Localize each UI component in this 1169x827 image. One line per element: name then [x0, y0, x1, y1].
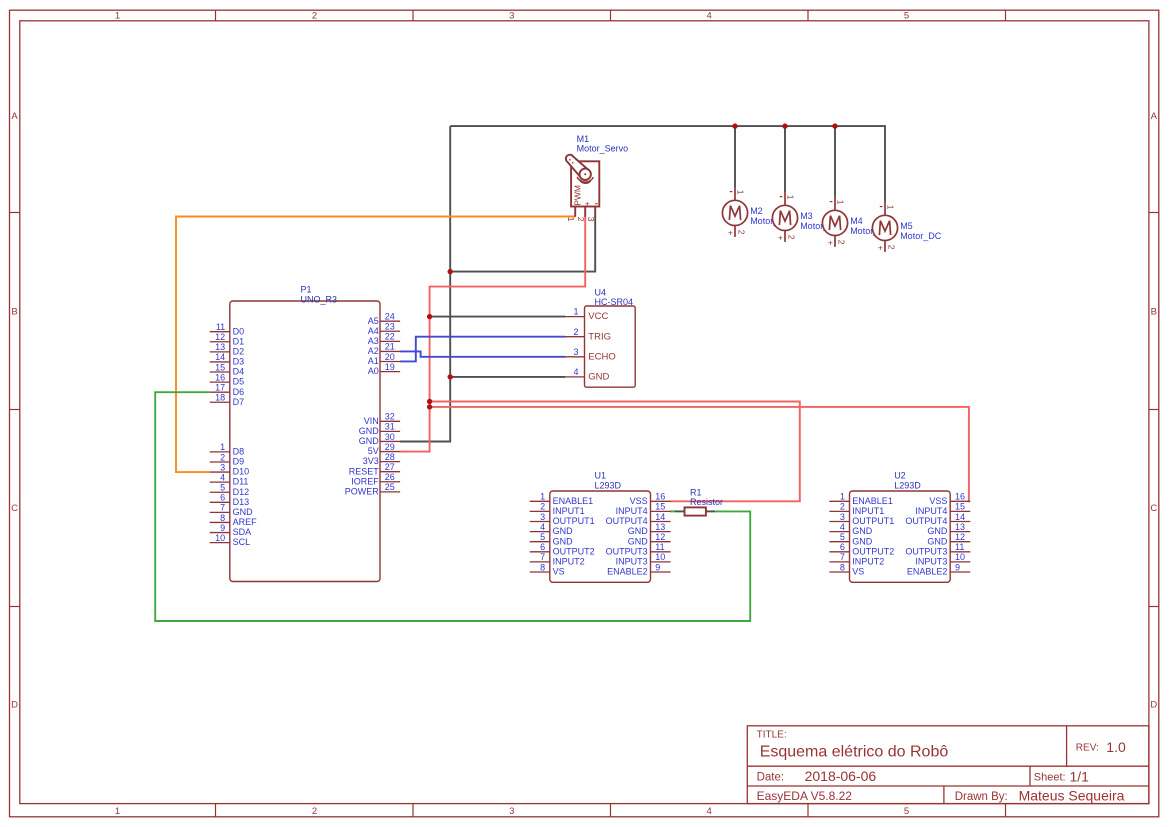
svg-text:GND: GND	[553, 536, 574, 546]
svg-text:30: 30	[385, 432, 395, 442]
svg-text:ENABLE1: ENABLE1	[553, 496, 594, 506]
svg-text:1: 1	[786, 195, 796, 200]
svg-text:15: 15	[215, 362, 225, 372]
svg-text:ENABLE1: ENABLE1	[852, 496, 893, 506]
svg-text:3: 3	[574, 347, 579, 357]
svg-text:GND: GND	[553, 526, 574, 536]
svg-text:OUTPUT2: OUTPUT2	[852, 546, 894, 556]
svg-text:Sheet:: Sheet:	[1034, 772, 1066, 784]
svg-text:GND: GND	[927, 536, 948, 546]
svg-text:U1: U1	[595, 471, 607, 481]
svg-text:D12: D12	[233, 487, 250, 497]
svg-text:SCL: SCL	[233, 537, 251, 547]
svg-text:L293D: L293D	[595, 480, 622, 490]
svg-text:INPUT3: INPUT3	[616, 557, 648, 567]
svg-text:6: 6	[220, 493, 225, 503]
svg-text:1: 1	[840, 492, 845, 502]
svg-text:14: 14	[215, 352, 225, 362]
svg-text:27: 27	[385, 462, 395, 472]
svg-text:TITLE:: TITLE:	[757, 729, 787, 740]
svg-text:OUTPUT4: OUTPUT4	[905, 516, 947, 526]
svg-text:5: 5	[840, 532, 845, 542]
svg-text:2: 2	[840, 502, 845, 512]
svg-text:D11: D11	[233, 477, 249, 487]
svg-text:A: A	[1151, 111, 1158, 122]
svg-text:9: 9	[955, 562, 960, 572]
svg-text:2: 2	[737, 230, 747, 235]
svg-text:1: 1	[886, 205, 896, 210]
svg-text:7: 7	[540, 552, 545, 562]
svg-text:L293D: L293D	[894, 480, 921, 490]
svg-text:12: 12	[215, 332, 225, 342]
svg-text:10: 10	[955, 552, 965, 562]
svg-text:IOREF: IOREF	[351, 476, 379, 486]
svg-text:D8: D8	[233, 447, 245, 457]
svg-text:5V: 5V	[368, 446, 379, 456]
svg-text:D6: D6	[233, 387, 245, 397]
svg-text:13: 13	[655, 522, 665, 532]
svg-text:UNO_R3: UNO_R3	[301, 294, 338, 304]
svg-text:Date:: Date:	[757, 772, 785, 784]
svg-text:VS: VS	[852, 567, 864, 577]
svg-text:4: 4	[707, 806, 712, 817]
svg-text:2: 2	[837, 240, 847, 245]
svg-text:AREF: AREF	[233, 517, 258, 527]
svg-text:9: 9	[220, 523, 225, 533]
svg-text:2: 2	[787, 235, 797, 240]
svg-text:U2: U2	[894, 471, 906, 481]
svg-text:A1: A1	[368, 356, 379, 366]
svg-text:26: 26	[385, 472, 395, 482]
svg-text:D9: D9	[233, 457, 245, 467]
svg-text:M5: M5	[900, 221, 913, 231]
svg-text:6: 6	[840, 542, 845, 552]
svg-text:GND: GND	[927, 526, 948, 536]
svg-text:REV:: REV:	[1076, 743, 1099, 754]
svg-text:3: 3	[540, 512, 545, 522]
svg-text:21: 21	[385, 342, 395, 352]
svg-text:Mateus Sequeira: Mateus Sequeira	[1019, 787, 1125, 803]
svg-text:VCC: VCC	[588, 311, 608, 322]
svg-text:31: 31	[385, 422, 395, 432]
svg-text:A: A	[11, 111, 18, 122]
svg-text:12: 12	[655, 532, 665, 542]
svg-text:D: D	[11, 700, 18, 711]
svg-text:OUTPUT4: OUTPUT4	[606, 516, 648, 526]
svg-text:13: 13	[215, 342, 225, 352]
svg-text:GND: GND	[628, 536, 649, 546]
svg-text:3: 3	[840, 512, 845, 522]
svg-text:5: 5	[904, 10, 909, 21]
svg-text:Esquema elétrico do Robô: Esquema elétrico do Robô	[760, 744, 949, 761]
svg-text:1: 1	[115, 806, 120, 817]
svg-text:ENABLE2: ENABLE2	[607, 567, 648, 577]
svg-text:10: 10	[655, 552, 665, 562]
svg-text:1: 1	[540, 492, 545, 502]
svg-text:2: 2	[887, 245, 897, 250]
svg-text:4: 4	[707, 10, 712, 21]
svg-text:2: 2	[540, 502, 545, 512]
svg-text:18: 18	[215, 393, 225, 403]
svg-text:D: D	[1150, 700, 1157, 711]
svg-text:M3: M3	[800, 211, 813, 221]
svg-text:M1: M1	[577, 134, 590, 144]
svg-text:INPUT4: INPUT4	[616, 506, 648, 516]
svg-text:GND: GND	[628, 526, 649, 536]
svg-text:10: 10	[215, 533, 225, 543]
svg-text:A2: A2	[368, 346, 379, 356]
svg-text:INPUT1: INPUT1	[852, 506, 884, 516]
svg-text:15: 15	[655, 502, 665, 512]
svg-text:17: 17	[215, 382, 225, 392]
svg-text:1: 1	[115, 10, 120, 21]
svg-text:INPUT2: INPUT2	[852, 557, 884, 567]
svg-text:2: 2	[312, 806, 317, 817]
svg-text:8: 8	[840, 562, 845, 572]
svg-text:28: 28	[385, 452, 395, 462]
svg-text:12: 12	[955, 532, 965, 542]
svg-text:8: 8	[540, 562, 545, 572]
svg-text:A4: A4	[368, 326, 379, 336]
svg-text:Resistor: Resistor	[690, 497, 723, 507]
svg-text:1: 1	[836, 200, 846, 205]
svg-text:19: 19	[385, 362, 395, 372]
svg-text:16: 16	[215, 372, 225, 382]
svg-text:OUTPUT1: OUTPUT1	[553, 516, 595, 526]
svg-text:VS: VS	[553, 567, 565, 577]
svg-text:INPUT2: INPUT2	[553, 557, 585, 567]
svg-text:3: 3	[509, 10, 514, 21]
svg-text:M4: M4	[850, 216, 863, 226]
svg-text:2018-06-06: 2018-06-06	[805, 768, 877, 784]
svg-text:D4: D4	[233, 367, 245, 377]
svg-text:4: 4	[840, 522, 845, 532]
svg-text:11: 11	[655, 542, 664, 552]
svg-text:24: 24	[385, 312, 395, 322]
svg-text:OUTPUT3: OUTPUT3	[606, 546, 648, 556]
svg-text:D0: D0	[233, 326, 245, 336]
svg-text:11: 11	[955, 542, 964, 552]
svg-text:+: +	[878, 242, 883, 252]
svg-text:OUTPUT1: OUTPUT1	[852, 516, 894, 526]
svg-text:D3: D3	[233, 357, 245, 367]
svg-text:2: 2	[220, 452, 225, 462]
svg-text:16: 16	[955, 492, 965, 502]
svg-text:OUTPUT3: OUTPUT3	[905, 546, 947, 556]
svg-text:VIN: VIN	[364, 416, 379, 426]
svg-text:1.0: 1.0	[1106, 739, 1126, 755]
svg-text:1: 1	[574, 307, 579, 317]
svg-text:4: 4	[220, 472, 225, 482]
svg-text:INPUT1: INPUT1	[553, 506, 585, 516]
svg-text:23: 23	[385, 322, 395, 332]
svg-text:1/1: 1/1	[1070, 768, 1090, 784]
svg-text:TRIG: TRIG	[588, 331, 611, 342]
svg-text:Motor_Servo: Motor_Servo	[577, 144, 629, 154]
svg-text:D7: D7	[233, 397, 245, 407]
svg-text:GND: GND	[359, 436, 380, 446]
svg-text:OUTPUT2: OUTPUT2	[553, 546, 595, 556]
svg-text:D10: D10	[233, 467, 250, 477]
svg-text:B: B	[11, 307, 17, 318]
svg-text:U4: U4	[595, 288, 607, 298]
svg-text:3: 3	[509, 806, 514, 817]
svg-text:5: 5	[220, 483, 225, 493]
svg-text:3: 3	[586, 217, 596, 222]
svg-text:6: 6	[540, 542, 545, 552]
svg-text:11: 11	[216, 322, 225, 332]
svg-text:RESET: RESET	[349, 466, 380, 476]
svg-text:C: C	[11, 503, 18, 514]
svg-text:GND: GND	[359, 426, 380, 436]
svg-text:1: 1	[220, 442, 225, 452]
svg-text:9: 9	[655, 562, 660, 572]
svg-text:A3: A3	[368, 336, 379, 346]
svg-text:INPUT4: INPUT4	[915, 506, 947, 516]
svg-text:A5: A5	[368, 316, 379, 326]
svg-text:D2: D2	[233, 346, 245, 356]
svg-text:GND: GND	[588, 372, 609, 383]
svg-text:1: 1	[566, 217, 576, 222]
svg-text:HC-SR04: HC-SR04	[595, 297, 634, 307]
svg-text:32: 32	[385, 412, 395, 422]
svg-text:Drawn By:: Drawn By:	[955, 791, 1008, 803]
svg-text:3V3: 3V3	[363, 456, 379, 466]
svg-text:5: 5	[540, 532, 545, 542]
svg-text:7: 7	[840, 552, 845, 562]
svg-text:GND: GND	[852, 536, 873, 546]
svg-text:4: 4	[574, 367, 579, 377]
svg-text:PWM: PWM	[572, 185, 582, 206]
svg-text:POWER: POWER	[345, 486, 380, 496]
svg-text:+: +	[778, 232, 783, 242]
svg-text:B: B	[1151, 307, 1157, 318]
svg-text:16: 16	[655, 492, 665, 502]
svg-text:14: 14	[655, 512, 665, 522]
svg-text:Motor_DC: Motor_DC	[900, 231, 942, 241]
svg-text:P1: P1	[301, 285, 312, 295]
svg-text:VSS: VSS	[630, 496, 648, 506]
svg-text:GND: GND	[233, 507, 254, 517]
svg-text:8: 8	[220, 513, 225, 523]
svg-text:GND: GND	[852, 526, 873, 536]
svg-text:25: 25	[385, 482, 395, 492]
svg-text:D1: D1	[233, 336, 245, 346]
svg-text:3: 3	[220, 462, 225, 472]
svg-text:D5: D5	[233, 377, 245, 387]
svg-text:14: 14	[955, 512, 965, 522]
svg-text:R1: R1	[690, 487, 702, 497]
svg-text:C: C	[1150, 503, 1157, 514]
svg-text:2: 2	[576, 217, 586, 222]
svg-text:4: 4	[540, 522, 545, 532]
svg-text:7: 7	[220, 503, 225, 513]
svg-text:+: +	[728, 227, 733, 237]
svg-text:+: +	[828, 237, 833, 247]
svg-text:2: 2	[574, 327, 579, 337]
svg-text:1: 1	[736, 190, 746, 195]
svg-text:ECHO: ECHO	[588, 351, 615, 362]
svg-text:13: 13	[955, 522, 965, 532]
svg-text:D13: D13	[233, 497, 250, 507]
svg-text:20: 20	[385, 352, 395, 362]
svg-text:A0: A0	[368, 366, 379, 376]
svg-text:INPUT3: INPUT3	[915, 557, 947, 567]
svg-text:5: 5	[904, 806, 909, 817]
svg-text:29: 29	[385, 442, 395, 452]
svg-text:VSS: VSS	[929, 496, 947, 506]
svg-text:M2: M2	[750, 206, 763, 216]
svg-text:SDA: SDA	[233, 527, 252, 537]
svg-text:15: 15	[955, 502, 965, 512]
svg-text:ENABLE2: ENABLE2	[907, 567, 948, 577]
svg-text:2: 2	[312, 10, 317, 21]
svg-text:22: 22	[385, 332, 395, 342]
svg-text:EasyEDA V5.8.22: EasyEDA V5.8.22	[757, 789, 853, 803]
